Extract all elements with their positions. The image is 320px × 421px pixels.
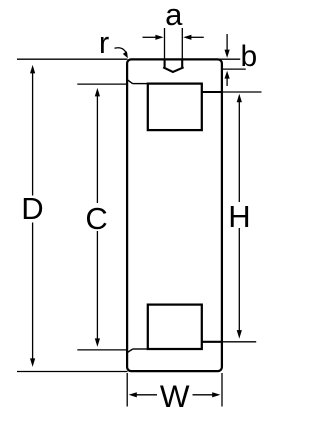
svg-text:r: r [99, 25, 109, 60]
top roller pocket rect [148, 84, 202, 131]
dimension W: left extension line [126, 373, 128, 407]
dimension C: bottom extension line [77, 349, 126, 351]
bottom-right lip line [202, 341, 222, 343]
dimension C: top extension line [77, 83, 126, 85]
dimension H: bottom extension line [222, 341, 256, 343]
dimension C: down arrow [95, 338, 100, 347]
dimension D: up arrow [30, 65, 35, 74]
svg-text:H: H [228, 199, 250, 234]
dimension W: right extension line [221, 373, 223, 407]
bearing outer cup outline [127, 59, 222, 371]
svg-text:D: D [21, 191, 43, 226]
svg-text:W: W [160, 379, 190, 414]
dimension b: up arrow below [226, 78, 228, 86]
top-right lip line [202, 91, 222, 93]
dimension C: vertical line lower [96, 231, 98, 339]
dimension a: right arrow [190, 36, 203, 38]
dimension D: bottom extension line [17, 371, 128, 373]
dimension W: left arrow [136, 394, 157, 396]
dimension b: down arrow above [226, 34, 228, 50]
dimension b: top extension line [218, 58, 240, 60]
r leader curved arrow [115, 48, 127, 55]
bottom inner surface line [133, 348, 148, 350]
dimension D: down arrow [30, 358, 35, 367]
svg-text:C: C [85, 201, 107, 236]
bottom roller pocket rect [148, 305, 202, 349]
dimension D: vertical line lower [32, 223, 34, 359]
lube notch at top (thick outline) [165, 59, 183, 67]
dimension H: up arrow [237, 94, 242, 103]
top-left inner chamfer [127, 80, 132, 84]
dimension D: top extension line [17, 58, 128, 60]
dimension D: vertical line upper [32, 73, 34, 196]
dimension H: vertical line upper [238, 102, 240, 202]
dimension H: top extension line [222, 91, 262, 93]
dimension H: vertical line lower [238, 228, 240, 331]
dimension a: extension line right [181, 28, 183, 59]
dimension C: vertical line upper [96, 96, 98, 203]
svg-text:b: b [241, 40, 258, 73]
dimension b: bottom extension line [222, 68, 246, 70]
dimension W: right arrow [193, 394, 214, 396]
dimension a: left arrow [143, 36, 157, 38]
dimension C: up arrow [95, 88, 100, 97]
dimension H: down arrow [237, 330, 242, 339]
top inner surface line [133, 83, 148, 85]
bottom-left inner chamfer [127, 349, 133, 353]
svg-text:a: a [165, 0, 183, 32]
dimension a: extension line left [164, 28, 166, 59]
